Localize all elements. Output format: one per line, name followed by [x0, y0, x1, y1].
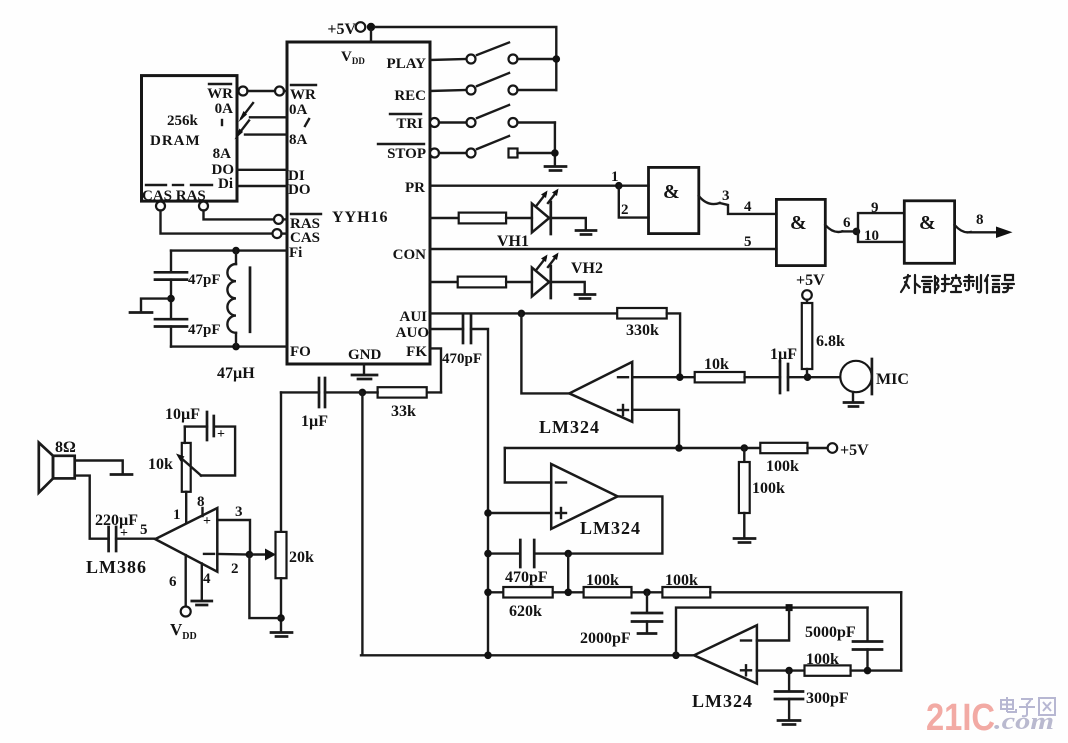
and-gate G1: [649, 167, 699, 233]
node Fi/inductor junction: [232, 247, 240, 255]
svg-text:100k: 100k: [752, 480, 785, 497]
node 620k/100k: [564, 589, 572, 597]
wire FK node down to output bus: [361, 392, 363, 655]
node 6: [853, 228, 861, 236]
svg-text:330k: 330k: [626, 322, 659, 339]
wire 330k to inverting input: [667, 313, 680, 377]
address bus arrow 0A: [239, 103, 288, 122]
resistor 10k: [695, 356, 745, 382]
node mic bias: [804, 373, 812, 381]
svg-text:10k: 10k: [704, 356, 729, 373]
svg-text:LM324: LM324: [692, 691, 753, 711]
ground (VH2): [575, 295, 595, 299]
svg-text:33k: 33k: [391, 403, 416, 420]
svg-text:+: +: [217, 427, 225, 442]
wire output bus row: [361, 654, 694, 656]
char zhi: [964, 275, 981, 292]
svg-text:DO: DO: [288, 182, 311, 198]
wire pin6 to VDD: [184, 555, 186, 606]
wire op2 non-inverting input: [488, 512, 551, 514]
svg-text:LM386: LM386: [86, 557, 147, 577]
wire 1uF to MIC: [788, 376, 840, 378]
wire op2 output loop: [534, 496, 662, 553]
svg-text:.com: .com: [994, 709, 1054, 735]
svg-text:470pF: 470pF: [442, 351, 482, 367]
wire op1 output to AUI: [521, 313, 569, 393]
node bus/feedback vertical: [672, 652, 680, 660]
DRAM U2 256k body: [142, 76, 238, 202]
node FO/inductor junction: [232, 343, 240, 351]
node op3+/300pF: [785, 667, 793, 675]
node oscillator midpoint: [167, 295, 175, 303]
potentiometer 20k: [276, 532, 315, 578]
wire bias row: [505, 447, 761, 449]
svg-text:8Ω: 8Ω: [55, 439, 76, 456]
wire gate1 input 2: [619, 186, 649, 218]
svg-text:10µF: 10µF: [165, 406, 200, 423]
svg-text:3: 3: [722, 188, 730, 204]
wire pin1 to pot: [185, 492, 187, 522]
svg-text:DRAM: DRAM: [150, 133, 201, 149]
svg-text:10k: 10k: [148, 456, 173, 473]
capacitor 1uF (FK): [281, 378, 362, 430]
svg-text:47µH: 47µH: [217, 365, 255, 382]
wire crystal left branch upper: [170, 251, 172, 273]
power VDD terminal: [170, 607, 197, 643]
power +5V (mic bias): [796, 272, 825, 303]
node 2000pF junction: [643, 589, 651, 597]
svg-text:100k: 100k: [665, 572, 698, 589]
svg-text:1µF: 1µF: [770, 346, 797, 363]
node 20k/feedback: [277, 614, 285, 622]
svg-text:9: 9: [871, 200, 879, 216]
svg-text:Fi: Fi: [289, 245, 302, 261]
ground (VH1): [576, 231, 596, 235]
capacitor 470pF (feedback): [488, 540, 548, 586]
svg-text:1µF: 1µF: [301, 413, 328, 430]
svg-text:2: 2: [231, 561, 239, 577]
wire 470pF/620k tie: [567, 554, 569, 593]
svg-text:6: 6: [169, 574, 177, 590]
wire cap node: [170, 280, 172, 320]
svg-text:CON: CON: [393, 247, 427, 263]
svg-text:LM324: LM324: [580, 518, 641, 538]
ground (20k): [271, 633, 292, 637]
node pins 2/3: [246, 551, 254, 559]
svg-text:5: 5: [140, 522, 148, 538]
node feedback right: [564, 550, 572, 558]
ground (IC GND pin): [352, 364, 377, 379]
svg-text:47pF: 47pF: [188, 322, 221, 338]
pin RAS (active low): [290, 214, 321, 232]
svg-text:WR: WR: [207, 86, 233, 102]
svg-text:8A: 8A: [213, 146, 232, 162]
ground (oscillator): [130, 299, 171, 313]
ground (divider): [734, 539, 755, 543]
svg-text:6.8k: 6.8k: [816, 333, 845, 350]
capacitor 300pF: [775, 671, 849, 719]
pin TRI (active low): [390, 114, 423, 132]
node feedback left: [484, 550, 492, 558]
capacitor 220uF: [95, 512, 138, 551]
svg-text:100k: 100k: [766, 458, 799, 475]
wire gate2 output: [825, 225, 842, 232]
svg-text:8: 8: [976, 212, 984, 228]
resistor 100k (comparator): [805, 651, 902, 676]
svg-text:100k: 100k: [806, 651, 839, 668]
DRAM pins CAS RAS: [142, 185, 212, 204]
svg-text:PR: PR: [405, 180, 425, 196]
svg-text:470pF: 470pF: [505, 569, 548, 586]
wire speaker bottom to 220uF: [75, 476, 109, 539]
node 620k left: [484, 589, 492, 597]
ground (300pF): [778, 721, 800, 725]
svg-text:Di: Di: [218, 176, 233, 192]
svg-text:47pF: 47pF: [188, 272, 221, 288]
capacitor 1uF (mic coupling): [770, 346, 797, 393]
LED VH1: [497, 189, 559, 251]
resistor 100k (to +5V): [760, 443, 807, 475]
LED VH2: [532, 253, 603, 299]
microphone MIC: [840, 359, 909, 394]
wire pin2: [217, 553, 249, 556]
svg-text:4: 4: [203, 571, 211, 587]
and-gate G3: [904, 201, 954, 263]
capacitor C1 47pF: [155, 272, 221, 288]
wire Fi row: [171, 249, 287, 251]
svg-text:MIC: MIC: [876, 371, 909, 388]
op-amp U4 LM386: [86, 508, 217, 577]
wire VH1 cathode to ground: [552, 218, 585, 229]
svg-text:300pF: 300pF: [806, 690, 849, 707]
pin 8 stub: [201, 508, 203, 516]
resistor (VH2 series): [430, 277, 532, 288]
svg-text:8: 8: [197, 494, 205, 510]
svg-text:3: 3: [235, 504, 243, 520]
wire RAS: DRAM to IC: [199, 202, 287, 224]
resistor 100k (first): [584, 572, 663, 598]
capacitor 470pF (AUO coupling): [430, 315, 482, 367]
resistor 6.8k: [802, 303, 845, 377]
op-amp U3A LM324: [539, 362, 632, 437]
svg-text:&: &: [790, 212, 807, 234]
address bus arrow 8A: [235, 121, 288, 140]
svg-text:PLAY: PLAY: [387, 56, 427, 72]
svg-text:&: &: [919, 212, 936, 234]
switch S1 PLAY: [430, 43, 556, 64]
svg-text:VH1: VH1: [497, 233, 529, 250]
svg-text:&: &: [663, 181, 680, 203]
wire gate3 inputs bracket: [858, 213, 904, 242]
svg-text:256k: 256k: [167, 113, 199, 129]
wire op2 inverting input to bias row: [505, 448, 551, 483]
wire AUI row: [430, 312, 617, 314]
DRAM pin WR: [207, 84, 233, 102]
label: external control signal (Chinese): [901, 275, 1014, 293]
pin WR (IC left, active low): [290, 85, 316, 103]
svg-text:21IC: 21IC: [926, 697, 995, 739]
char wai: [901, 275, 920, 293]
svg-text:LM324: LM324: [539, 417, 600, 437]
ground (switches): [545, 167, 566, 171]
and-gate G2: [776, 199, 825, 265]
capacitor 2000pF: [580, 592, 662, 647]
resistor 620k: [488, 587, 584, 620]
wire speaker top to ground: [75, 461, 123, 474]
svg-text:FO: FO: [290, 344, 311, 360]
ellipsis mark between 0A and 8A: [305, 119, 309, 126]
svg-text:VH2: VH2: [571, 260, 603, 277]
wire +5V rail to switches: [375, 27, 556, 90]
wire 220uF to LM386 output: [116, 538, 155, 540]
wire CON row (gate2 input 5): [430, 248, 776, 250]
resistor 330k: [617, 308, 667, 339]
svg-text:CAS: CAS: [290, 230, 320, 246]
node S4/ground: [551, 149, 559, 157]
resistor 33k: [362, 387, 441, 420]
resistor (VH1 series): [430, 213, 532, 224]
inductor L1 47uH: [217, 251, 255, 382]
svg-text:+5V: +5V: [327, 21, 356, 38]
wire 1uF to 20k pot: [280, 392, 282, 532]
op-amp U3C LM324: [692, 625, 757, 711]
capacitor C2 47pF: [155, 319, 221, 338]
speaker 8 ohm: [39, 439, 76, 493]
node +5V/S1: [553, 55, 561, 63]
wire CAS: DRAM to IC: [156, 202, 287, 239]
svg-text:TRI: TRI: [396, 116, 423, 132]
svg-text:10: 10: [864, 228, 879, 244]
node AUI/op-amp output: [518, 310, 526, 318]
wire VH2 cathode to ground: [552, 282, 584, 293]
svg-text:+5V: +5V: [796, 272, 825, 289]
capacitor 5000pF: [805, 608, 882, 671]
svg-text:VDD: VDD: [341, 49, 365, 66]
node 100k/5000pF: [864, 667, 872, 675]
wire PR row: [430, 184, 649, 186]
watermark dianziwang (Chinese): [1001, 697, 1055, 716]
wire gate3 output with arrow: [955, 225, 1013, 238]
ground (MIC): [844, 392, 863, 407]
char hao: [1002, 275, 1014, 292]
ground (pin4): [192, 601, 212, 605]
wire pin4 to ground: [201, 564, 203, 600]
svg-text:CAS RAS: CAS RAS: [142, 188, 206, 204]
svg-text:2000pF: 2000pF: [580, 630, 631, 647]
wire Di to DO: [237, 185, 287, 187]
svg-text:REC: REC: [394, 88, 426, 104]
svg-text:GND: GND: [348, 347, 382, 363]
node PR/gate branch: [615, 182, 623, 190]
node bias/op1+: [675, 444, 683, 452]
wire crystal left branch lower: [170, 327, 172, 347]
svg-text:+5V: +5V: [840, 442, 869, 459]
node 33k/1uF junction: [359, 389, 367, 397]
svg-text:620k: 620k: [509, 603, 542, 620]
wire node2/3 to 20k bottom: [249, 555, 281, 619]
char kong: [942, 275, 961, 292]
node bias/100k divider: [741, 444, 749, 452]
char bu: [922, 276, 939, 293]
svg-text:+: +: [203, 514, 211, 529]
svg-text:1: 1: [611, 169, 619, 185]
svg-text:0A: 0A: [215, 101, 234, 117]
wire 20k bottom: [280, 578, 282, 631]
wire WR: DRAM to IC with terminals: [237, 87, 287, 96]
svg-text:220µF: 220µF: [95, 512, 138, 529]
wire 10k to 1uF: [745, 376, 780, 378]
svg-text:5: 5: [744, 234, 752, 250]
svg-text:0A: 0A: [289, 102, 308, 118]
power +5V (top): [327, 21, 375, 42]
svg-text:WR: WR: [290, 87, 316, 103]
switch S3 TRI: [430, 105, 555, 127]
op-amp U3B LM324: [551, 464, 641, 538]
svg-text:YYH16: YYH16: [332, 209, 389, 226]
wire FO row: [171, 345, 287, 347]
wire DO to DI: [237, 169, 287, 171]
wire op3 non-inverting row: [757, 669, 805, 671]
wire gate1 output to gate2: [699, 196, 777, 214]
wire S3/S4 vertical: [554, 123, 556, 166]
ground (speaker): [111, 473, 132, 476]
switch S4 STOP: [430, 136, 555, 158]
IC U1 YYH16 body: [287, 42, 430, 364]
svg-text:FK: FK: [406, 344, 427, 360]
resistor 100k (second): [662, 572, 901, 598]
DRAM ellipsis mark: [221, 120, 223, 125]
svg-text:VDD: VDD: [170, 620, 197, 642]
svg-text:6: 6: [843, 215, 851, 231]
wire op1 non-inverting input to bias row: [632, 410, 679, 448]
capacitor 10uF (gain): [165, 406, 235, 476]
node op1 inv/330k/10k: [676, 373, 684, 381]
node bus/AUO vertical: [484, 652, 492, 660]
svg-text:1: 1: [173, 507, 181, 523]
node op3 inverting tie (square): [786, 604, 793, 611]
svg-text:5000pF: 5000pF: [805, 624, 856, 641]
svg-text:100k: 100k: [586, 572, 619, 589]
wire row to comparator right side: [900, 592, 902, 670]
wire op1 inverting input: [632, 376, 695, 378]
power +5V (bias): [808, 442, 870, 459]
svg-text:8A: 8A: [289, 132, 308, 148]
svg-text:AUO: AUO: [396, 325, 429, 341]
wire pin3: [217, 520, 250, 555]
potentiometer 20k wiper arrow: [249, 549, 276, 561]
svg-text:STOP: STOP: [387, 146, 426, 162]
svg-text:4: 4: [744, 199, 752, 215]
potentiometer 10k: [148, 443, 201, 492]
resistor 100k (divider lower): [739, 448, 785, 537]
svg-text:20k: 20k: [289, 549, 314, 566]
svg-text:2: 2: [621, 202, 629, 218]
svg-text:AUI: AUI: [399, 309, 427, 325]
wire FK to 33k: [430, 348, 441, 392]
char xin: [985, 275, 1000, 293]
wire op3 feedback top: [676, 608, 868, 656]
node op2+/AUO bus: [484, 509, 492, 517]
pin STOP (active low): [378, 144, 426, 162]
wire AUO vertical bus: [471, 329, 488, 655]
switch S2 REC: [430, 73, 556, 95]
wire op3 inverting input: [757, 608, 789, 641]
